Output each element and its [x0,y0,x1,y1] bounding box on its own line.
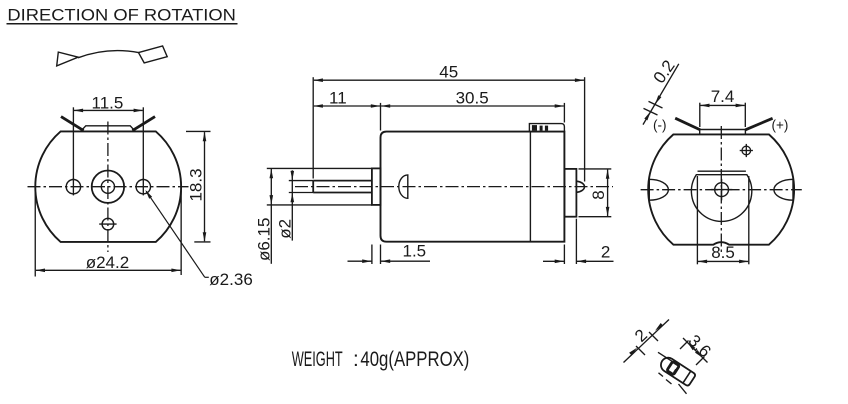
leader line to right hole [146,191,205,277]
side view horizontal centerline [295,186,613,188]
dim 7.4 right extension line [744,103,746,127]
dim 7.4 right arrow [736,104,746,108]
rear view vertical centerline [720,126,722,252]
dim 24.2 right arrow [171,269,181,273]
front view horizontal centerline [28,186,189,188]
front view vertical centerline [107,122,109,253]
svg-text:2: 2 [601,243,610,262]
dim 2 shaft bottom extension line [289,192,313,194]
detail dim 3.6 upper arrow [687,342,695,350]
dim 8.5 right arrow [739,260,749,264]
detail dim 3.6 upper extension tick [680,341,689,350]
terminal inner hole [667,361,680,374]
shaft bottom line [313,192,372,194]
dim 2 shaft top extension line [289,180,313,182]
dim 7.4 dimension line [700,104,744,106]
svg-text:40g(APPROX): 40g(APPROX) [360,347,469,371]
dim 24.2 left extension line [34,190,36,277]
front bearing bushing [372,168,381,205]
dim 2 upper outside arrow [291,171,295,181]
dim 45 left arrow [313,78,323,82]
dim 0.2 lower arrow [644,111,650,120]
svg-text:8.5: 8.5 [711,243,735,262]
detail dim 2 lower arrow [629,348,637,356]
terminal tip crimp line [683,371,691,383]
rear view top tab [700,130,746,135]
detail dim 2 upper extension tick [649,332,658,341]
dim 45 dimension line [314,79,584,81]
svg-text:11: 11 [329,88,347,107]
detail dim 2 lower extension tick [636,346,645,355]
dim 0.2 upper extension tick [649,101,663,108]
svg-text:8: 8 [589,190,608,199]
dim 2 boss right extension line [575,219,577,264]
dim 2 boss right arrow [577,260,587,264]
dim 2 boss left arrow [555,260,565,264]
leader arrowhead [145,190,152,199]
dim 0.2 lower extension tick [644,108,658,115]
svg-text:1.5: 1.5 [403,242,427,261]
center hole vertical tick [721,179,723,200]
svg-text:11.5: 11.5 [92,93,124,112]
dim 30.5 dimension line [381,105,564,107]
dim 8.5 dimension line [698,260,748,262]
dim 2 dimension line vertical [291,170,293,240]
dim 1.5 left lead line [348,260,372,262]
dim 24.2 dimension line [36,269,181,271]
rear bearing boss [564,169,576,217]
dim 0.2 upper arrow [655,95,661,104]
dim 8 top extension line [579,168,612,170]
dim 45 left extension line [312,77,314,178]
rear view left side slot [649,179,668,200]
svg-text::: : [353,347,359,371]
svg-text:ø6.15: ø6.15 [254,218,273,261]
dim 11/30.5 shared extension line [380,103,382,131]
rotation arrow arc [78,51,140,58]
rear view gate mark circle [742,146,751,155]
detail lower-right extension line [679,384,687,394]
svg-text:45: 45 [439,63,458,82]
dim 11 left arrow [313,104,323,108]
dim 11 dimension line [314,105,380,107]
detail dim 3.6 dimension line [683,338,708,363]
svg-text:ø2: ø2 [276,219,295,239]
rear view left terminal [675,118,700,130]
front view shaft hub outer circle [92,171,124,203]
shaft top line [313,180,372,182]
svg-text:(-): (-) [653,118,667,133]
dim 1.5 right arrow [381,259,391,263]
dim 2 boss left extension line [563,245,565,265]
dim 11.5 left extension line [72,107,74,179]
dim 24.2 right extension line [180,191,182,276]
svg-text:DIRECTION OF ROTATION: DIRECTION OF ROTATION [7,5,236,24]
detail dim 3.6 lower arrow [695,350,703,358]
dim 30.5 right arrow [555,104,565,108]
front view top tab [81,126,136,132]
title underline [7,23,238,25]
terminal inner tang [673,369,677,374]
dim 1.5 left arrow [362,259,372,263]
dim 7.4 left arrow [700,104,710,108]
front view motor body outline [35,131,181,242]
dim 0.2 dimension line [643,64,679,125]
dim 6.15 bottom extension line [267,204,372,206]
dim 11.5 right arrow [134,109,144,113]
dim 8 bottom arrow [606,207,610,217]
front view left hole [66,180,80,194]
dim 6.15 top arrow [270,169,274,179]
front view shaft hole [101,180,114,193]
terminal block black mark 1 [532,125,537,131]
dim 30.5 right extension line [563,103,565,123]
svg-text:18.3: 18.3 [186,168,205,201]
detail lower tangent extension line seg1 [659,373,664,377]
svg-text:0.2: 0.2 [650,57,679,87]
svg-text:30.5: 30.5 [456,88,489,107]
svg-text:7.4: 7.4 [711,87,735,106]
front view right terminal whisker [132,117,155,131]
svg-text:2: 2 [631,326,651,346]
rear view horizontal centerline [641,189,802,191]
dim 30.5 left arrow [381,104,391,108]
front view bottom hole [102,218,114,230]
dim 2 boss left lead line [543,260,564,262]
svg-text:WEIGHT: WEIGHT [292,347,343,371]
dim 2 boss right lead line [577,260,614,262]
front view right hole [136,180,150,194]
bearing recess circle with flat top [691,175,751,222]
dim 11.5 left arrow [74,109,84,113]
dim 18.3 bottom arrow [203,232,207,242]
svg-text:(+): (+) [772,118,789,133]
gate mark vertical tick [745,144,747,157]
shaft end face [312,181,314,193]
dim 11 right arrow [371,104,381,108]
detail dim 2 dimension line [624,320,670,363]
bearing recess top chord line [698,170,746,172]
terminal detail group rotated [658,355,696,387]
front view left terminal whisker [61,117,84,131]
terminal block on endbell top [529,124,564,132]
dim 8 dimension line [607,169,609,216]
front view right hole vertical tick [142,178,144,195]
dim 1.5 right extension line [380,245,382,265]
can-to-endbell crimp line [529,132,531,242]
dim 1.5 left extension line [371,245,373,265]
detail dim 2 upper arrow [655,323,663,331]
dim 8 bottom extension line [579,216,612,218]
svg-text:ø2.36: ø2.36 [209,270,252,289]
dim 8.5 left extension line [696,176,698,264]
rear shaft nub [576,181,584,192]
rotation arrow tail parallelogram [139,46,168,63]
brush spring D-shape [399,175,408,198]
terminal block black mark 3 [545,126,548,131]
dim 1.5 right lead line [381,260,430,262]
detail upper tangent extension line [658,352,674,362]
gate mark horizontal tick [740,150,753,152]
center hole horizontal tick [711,189,732,191]
detail lower tangent extension line seg2 [666,380,672,385]
dim 11.5 dimension line [74,109,143,111]
dim 2 lower outside arrow [291,193,295,203]
front view bottom hole horizontal tick [99,223,116,225]
terminal outer profile [658,355,696,387]
terminal block black mark 2 [540,126,543,131]
dim 6.15 top extension line [267,167,372,169]
dim 18.3 top arrow [203,132,207,142]
motor can body outline [381,132,565,242]
dim 11.5 right extension line [142,107,144,179]
dim 18.3 bottom extension line [194,241,210,243]
rotation arrow open head [57,52,78,66]
leader horizontal landing [205,276,209,278]
rear view motor body outline with bottom bump [648,134,794,244]
dim 8.5 left arrow [698,260,708,264]
rear view center shaft hole [715,183,729,197]
rear view right side slot [774,179,793,200]
detail dim 3.6 lower extension tick [696,357,705,366]
dim 8 top arrow [606,169,610,179]
dim 45 right extension line [584,77,586,181]
dim 18.3 dimension line [204,132,206,241]
dim 7.4 left extension line [699,103,701,127]
front view left hole vertical tick [72,178,74,195]
dim 6.15 bottom arrow [270,195,274,205]
dim 45 right arrow [575,78,585,82]
dim 18.3 top extension line [186,130,211,132]
dim 6.15 dimension line [270,169,272,264]
rear view right terminal [745,118,772,130]
svg-text:ø24.2: ø24.2 [86,253,129,272]
dim 8.5 right extension line [748,176,750,264]
svg-text:3.6: 3.6 [684,331,714,361]
dim 24.2 left arrow [36,269,46,273]
